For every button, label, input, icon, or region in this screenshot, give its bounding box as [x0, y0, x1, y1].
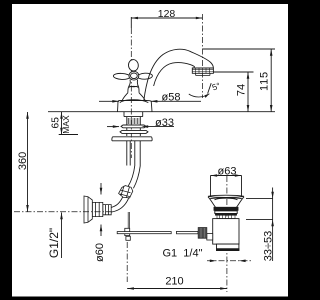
supply tube right: [135, 141, 140, 166]
seal dark band: [214, 207, 238, 210]
arrow o60 top: [100, 188, 103, 195]
deck line: [48, 111, 275, 113]
o60 dim line bottom: [100, 225, 102, 237]
arrow o58 left: [112, 100, 119, 103]
dimension 128 left extension: [130, 17, 132, 28]
arrow 74 bottom: [247, 105, 250, 112]
arrow o63 right: [235, 174, 242, 177]
supply tube left: [127, 141, 130, 166]
funnel cone sides: [208, 197, 244, 208]
arrow G1 1/4 right: [239, 260, 246, 263]
dim 210 line: [127, 288, 227, 290]
svg-text:74: 74: [236, 84, 248, 96]
5 deg tilted line: [208, 83, 212, 93]
dimension 115 line: [270, 49, 272, 112]
G1 1/4 reference dashes: [207, 260, 253, 262]
arrow 360 top: [26, 112, 29, 119]
o60 dim line top: [100, 183, 102, 195]
rod clamp: [125, 228, 130, 235]
wall fitting small coupling: [103, 205, 111, 215]
wall fitting hex nut: [92, 202, 103, 216]
svg-text:65: 65: [51, 117, 62, 129]
funnel inner rim: [210, 197, 242, 200]
faucet base: [118, 101, 153, 112]
arrow 33-53 lower: [271, 220, 274, 227]
G1/2 leader line: [61, 213, 63, 259]
faucet handle top button: [128, 59, 139, 71]
arrow 65MAX top: [60, 112, 63, 119]
svg-text:G1/2": G1/2": [47, 228, 61, 258]
horizontal rod left segment: [117, 232, 171, 234]
svg-text:115: 115: [258, 71, 270, 91]
ring below seal: [215, 211, 237, 214]
extension line top (115): [203, 48, 276, 50]
drain funnel rim: [208, 195, 244, 197]
svg-text:210: 210: [165, 276, 183, 288]
svg-text:G1 1/4": G1 1/4": [163, 248, 203, 260]
handle neck collar: [129, 86, 138, 88]
wall flange: [84, 196, 92, 223]
arrow 33-53 upper: [271, 192, 274, 199]
svg-text:128: 128: [158, 8, 176, 20]
svg-text:360: 360: [17, 152, 29, 170]
aerator detail lines: [192, 68, 213, 73]
arrow o60 bottom: [100, 225, 103, 232]
arrow 65MAX bottom: [60, 128, 63, 135]
faucet bell body: [122, 93, 145, 101]
o63 extension lines: [211, 176, 242, 196]
arrow 210 right: [220, 287, 227, 290]
handle neck: [128, 80, 139, 93]
dim line o33 left: [107, 126, 119, 128]
faucet centerline: [130, 28, 132, 158]
second dark ring: [216, 214, 237, 216]
supply pipe s-curve upper: [128, 166, 140, 189]
drain tailpiece: [217, 244, 239, 250]
base plate under deck: [124, 112, 143, 117]
dim line o58 right: [151, 100, 201, 102]
plug dome: [215, 198, 238, 200]
dimension 74 line: [247, 72, 249, 112]
rod port on body: [207, 234, 213, 240]
arrow 5 deg arc end: [204, 94, 209, 98]
spout aerator body: [192, 68, 213, 73]
drain centerline: [226, 176, 228, 292]
arrow 115 bottom: [270, 105, 273, 112]
dimension 65 MAX line: [61, 112, 63, 135]
mounting flange plate: [112, 137, 152, 141]
faucet bell shoulder: [120, 100, 149, 103]
arrow o33 right: [142, 125, 149, 128]
dim line o58 left: [99, 100, 119, 102]
pipe swivel nut: [119, 186, 133, 198]
o63 dim line: [211, 175, 242, 177]
shank thread hatching: [128, 118, 140, 124]
pop-up vertical rod: [128, 212, 129, 236]
extension 33-53 bottom: [246, 219, 273, 221]
dimension 360 line: [27, 112, 29, 212]
spout tip centerline: [202, 14, 204, 98]
rod end cap: [126, 236, 130, 240]
knurled knob: [198, 228, 207, 239]
svg-text:ø60: ø60: [94, 243, 106, 262]
arrow 128 right: [196, 17, 203, 20]
extension 65 MAX bottom: [59, 134, 78, 136]
arrow G1 1/4 left: [210, 260, 217, 263]
arrow o63 left: [211, 174, 218, 177]
faucet handle hub inner: [131, 73, 138, 79]
arrow o58 right: [151, 100, 158, 103]
upper washer o33: [121, 125, 146, 128]
drain body: [213, 219, 239, 245]
faucet handle left arm: [113, 73, 130, 80]
lower washer: [120, 130, 148, 133]
arrow 115 top: [270, 49, 273, 56]
5 deg swing arc: [189, 94, 210, 97]
extension line mid (74): [213, 71, 254, 73]
arrow 128 left: [131, 17, 138, 20]
aerator mesh tip: [196, 73, 211, 75]
extension 33-53 top: [246, 197, 273, 199]
svg-text:ø33: ø33: [155, 117, 174, 129]
arrow G1/2 leader: [60, 213, 63, 220]
dim line o33 right: [142, 126, 175, 128]
dim 210 left extension dashed: [126, 242, 128, 282]
faucet handle hub outer: [129, 71, 139, 80]
arrow o33 left: [113, 125, 120, 128]
dimension 33-53 line: [272, 188, 274, 262]
tailpiece thread bottom: [217, 249, 239, 251]
supply pipe s-curve lower: [111, 197, 128, 212]
spout outer curve: [144, 49, 214, 100]
wall fitting centerline: [14, 211, 113, 213]
dimension 128 line: [131, 17, 202, 19]
threaded collar: [217, 215, 235, 219]
arrow 360 bottom: [26, 205, 29, 212]
arrow 210 left: [127, 287, 134, 290]
spout inner curve: [154, 63, 195, 86]
horizontal rod right segment: [177, 231, 199, 233]
faucet handle right arm: [137, 73, 152, 80]
threaded shank: [127, 117, 141, 136]
arrow 74 top: [247, 72, 250, 79]
svg-text:ø58: ø58: [162, 91, 181, 103]
